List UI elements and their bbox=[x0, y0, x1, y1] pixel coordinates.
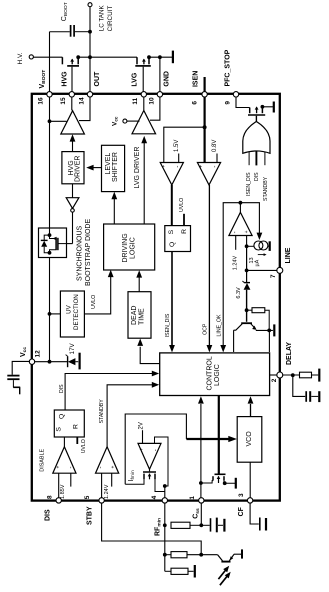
svg-text:7: 7 bbox=[270, 274, 277, 278]
svg-text:-: - bbox=[233, 231, 239, 233]
svg-text:DIS: DIS bbox=[59, 384, 65, 393]
svg-text:CF: CF bbox=[238, 506, 245, 516]
svg-text:UV: UV bbox=[66, 304, 73, 313]
svg-text:12: 12 bbox=[35, 350, 42, 358]
svg-text:DIS: DIS bbox=[254, 172, 260, 181]
svg-text:CIRCUIT: CIRCUIT bbox=[107, 6, 114, 32]
svg-text:4: 4 bbox=[151, 495, 158, 499]
svg-text:1.5V: 1.5V bbox=[174, 140, 180, 152]
svg-text:LINE: LINE bbox=[285, 247, 292, 263]
svg-text:DRIVING: DRIVING bbox=[122, 233, 129, 262]
svg-text:6: 6 bbox=[191, 101, 198, 105]
svg-text:GND: GND bbox=[163, 71, 170, 87]
svg-text:-: - bbox=[68, 467, 74, 469]
svg-text:LINE_OK: LINE_OK bbox=[216, 314, 222, 336]
svg-text:15: 15 bbox=[60, 97, 67, 105]
svg-text:R: R bbox=[73, 424, 80, 429]
svg-text:DISABLE: DISABLE bbox=[40, 449, 46, 472]
svg-text:VCO: VCO bbox=[246, 431, 253, 447]
svg-text:LC TANK: LC TANK bbox=[98, 4, 105, 31]
svg-text:STANDBY: STANDBY bbox=[263, 176, 269, 201]
svg-text:5: 5 bbox=[84, 495, 91, 499]
svg-text:-: - bbox=[98, 467, 104, 469]
svg-text:14: 14 bbox=[78, 97, 85, 105]
svg-text:17V: 17V bbox=[69, 342, 76, 354]
svg-text:8: 8 bbox=[47, 495, 54, 499]
svg-text:+: + bbox=[199, 165, 205, 168]
svg-text:UVLO: UVLO bbox=[81, 439, 87, 453]
svg-text:CONTROL: CONTROL bbox=[206, 356, 213, 390]
svg-text:LVG: LVG bbox=[131, 72, 138, 86]
svg-text:-: - bbox=[213, 166, 219, 168]
svg-text:UVLO: UVLO bbox=[91, 295, 97, 309]
svg-text:STBY: STBY bbox=[87, 506, 94, 525]
svg-text:1.24V: 1.24V bbox=[232, 255, 238, 270]
svg-text:1.24V: 1.24V bbox=[104, 484, 110, 499]
svg-text:DEAD: DEAD bbox=[131, 306, 138, 325]
svg-text:UVLO: UVLO bbox=[179, 198, 185, 212]
svg-text:DIS: DIS bbox=[44, 509, 51, 521]
svg-text:S: S bbox=[168, 229, 175, 234]
svg-text:PFC_STOP: PFC_STOP bbox=[224, 49, 231, 86]
svg-text:LVG DRIVER: LVG DRIVER bbox=[134, 147, 141, 189]
svg-text:TIME: TIME bbox=[138, 308, 145, 325]
svg-text:DETECTION: DETECTION bbox=[73, 294, 80, 330]
svg-text:ISEN: ISEN bbox=[192, 71, 199, 87]
svg-text:-: - bbox=[153, 449, 159, 451]
svg-text:DRIVER: DRIVER bbox=[75, 156, 82, 182]
svg-text:1: 1 bbox=[189, 496, 196, 500]
svg-text:OCP: OCP bbox=[202, 323, 208, 335]
svg-text:Q: Q bbox=[169, 242, 176, 247]
svg-text:+: + bbox=[139, 448, 145, 451]
svg-text:SYNCHRONOUS: SYNCHRONOUS bbox=[76, 225, 83, 281]
svg-text:S: S bbox=[56, 427, 63, 432]
svg-text:R: R bbox=[181, 229, 188, 234]
svg-text:LEVEL: LEVEL bbox=[105, 153, 112, 175]
svg-text:2V: 2V bbox=[138, 422, 144, 429]
svg-text:2: 2 bbox=[271, 378, 278, 382]
svg-text:STANDBY: STANDBY bbox=[99, 399, 105, 424]
svg-text:DELAY: DELAY bbox=[286, 342, 293, 365]
svg-text:-: - bbox=[175, 166, 181, 168]
svg-text:SHIFTER: SHIFTER bbox=[112, 152, 119, 182]
svg-text:LOGIC: LOGIC bbox=[214, 364, 221, 386]
svg-text:HVG: HVG bbox=[62, 71, 69, 87]
svg-text:3: 3 bbox=[238, 493, 245, 497]
svg-text:LOGIC: LOGIC bbox=[129, 237, 136, 259]
svg-text:10: 10 bbox=[148, 97, 155, 105]
svg-text:11: 11 bbox=[132, 97, 139, 104]
svg-text:+: + bbox=[161, 165, 167, 168]
svg-text:ISEN_DIS: ISEN_DIS bbox=[246, 172, 252, 196]
svg-text:+: + bbox=[244, 230, 250, 233]
svg-text:Q: Q bbox=[58, 414, 65, 419]
svg-text:+: + bbox=[111, 466, 117, 469]
svg-text:16: 16 bbox=[37, 97, 44, 105]
svg-text:µA: µA bbox=[254, 259, 260, 266]
svg-text:OUT: OUT bbox=[94, 71, 101, 87]
svg-text:9: 9 bbox=[225, 101, 232, 105]
svg-text:BOOTSTRAP DIODE: BOOTSTRAP DIODE bbox=[85, 219, 92, 286]
svg-text:1.85V: 1.85V bbox=[60, 484, 66, 499]
svg-text:ISEN_DIS: ISEN_DIS bbox=[165, 313, 171, 337]
svg-text:6.3V: 6.3V bbox=[236, 287, 242, 299]
svg-text:+: + bbox=[55, 466, 61, 469]
svg-text:0.8V: 0.8V bbox=[212, 140, 218, 152]
svg-text:H.V.: H.V. bbox=[17, 52, 24, 64]
